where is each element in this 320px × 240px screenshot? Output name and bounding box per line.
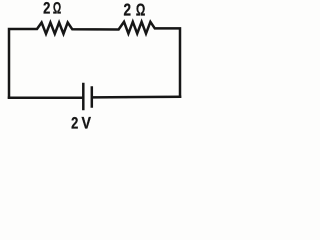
svg-text:2: 2 <box>71 115 78 133</box>
svg-text:Ω: Ω <box>136 1 146 20</box>
svg-text:2: 2 <box>123 1 131 20</box>
svg-text:V: V <box>82 114 92 132</box>
svg-text:2: 2 <box>43 0 50 18</box>
svg-text:Ω: Ω <box>53 0 61 17</box>
